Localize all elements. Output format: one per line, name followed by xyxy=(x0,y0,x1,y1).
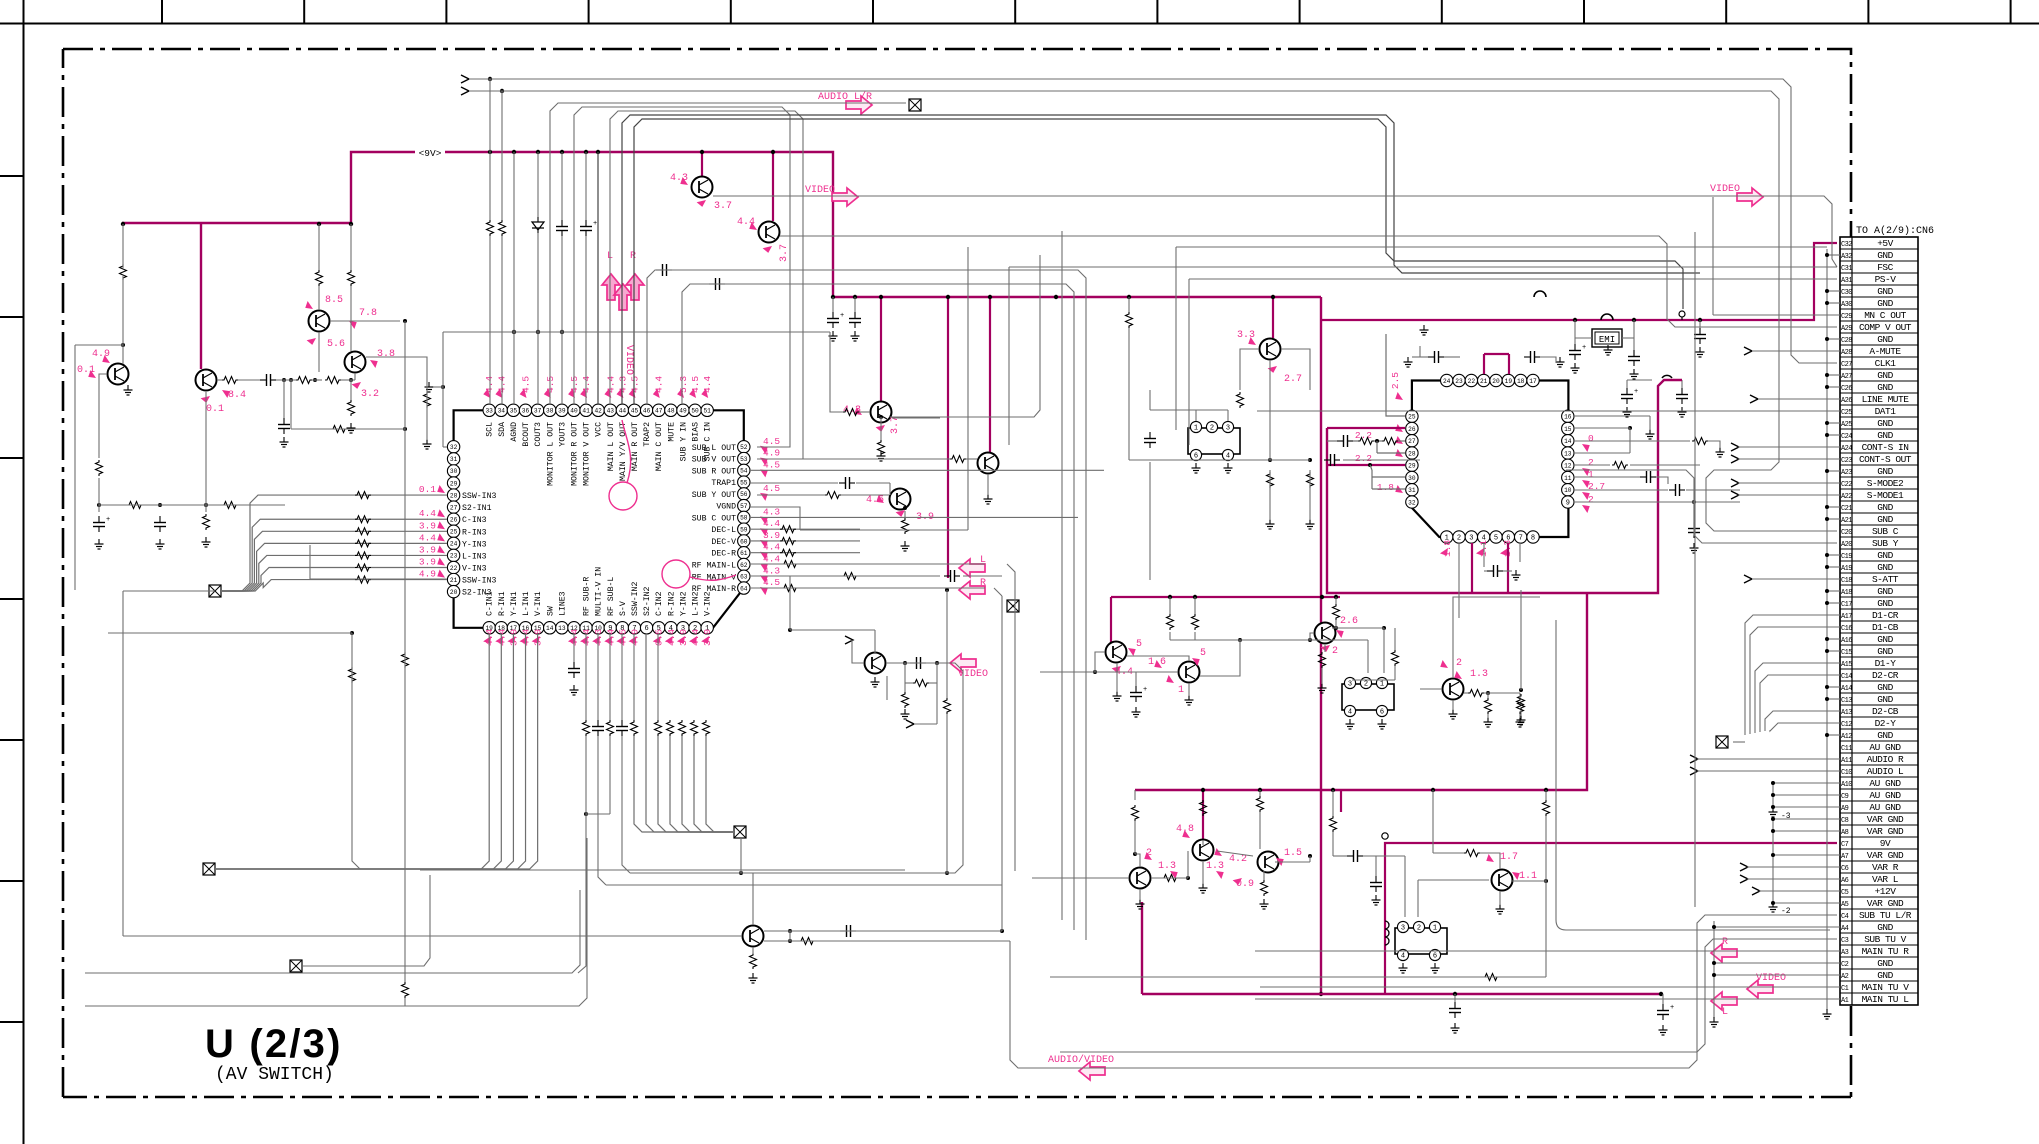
wire xyxy=(585,236,587,404)
svg-text:A17: A17 xyxy=(1841,613,1852,621)
svg-text:4.4: 4.4 xyxy=(763,554,780,565)
wire xyxy=(606,884,1002,886)
svg-text:GND: GND xyxy=(1877,970,1893,981)
wire xyxy=(501,91,503,220)
svg-text:0.1: 0.1 xyxy=(206,404,224,415)
svg-text:1.8: 1.8 xyxy=(1377,482,1394,493)
svg-text:14: 14 xyxy=(1564,438,1572,445)
wire magenta drop x1484-21 xyxy=(1483,354,1485,374)
svg-text:A5: A5 xyxy=(1841,901,1849,909)
wire GND bus at CN6 xyxy=(1826,249,1828,1010)
svg-text:31: 31 xyxy=(450,456,458,463)
capacitor C-emi2 xyxy=(1628,356,1640,358)
svg-text:A16: A16 xyxy=(1841,637,1852,645)
svg-text:Y-IN2: Y-IN2 xyxy=(679,591,688,616)
wire xyxy=(1151,877,1188,879)
svg-text:A-MUTE: A-MUTE xyxy=(1869,346,1901,357)
svg-text:2: 2 xyxy=(1588,457,1594,468)
transistor Q15 xyxy=(1315,623,1336,644)
wire xyxy=(1321,668,1323,684)
svg-text:4.5: 4.5 xyxy=(763,436,780,447)
ground Q11 xyxy=(874,677,876,682)
wire xyxy=(1484,692,1520,694)
capacitor C-p49 xyxy=(715,278,717,290)
ground AU GND -3 xyxy=(1772,807,1774,812)
svg-text:3.7: 3.7 xyxy=(714,201,732,212)
wire xyxy=(1335,597,1337,604)
svg-text:A18: A18 xyxy=(1841,589,1852,597)
resistor R-q1c xyxy=(120,264,127,280)
transistor Q16 xyxy=(1443,679,1464,700)
svg-text:TRAP2: TRAP2 xyxy=(643,422,652,447)
ground u2a xyxy=(1407,357,1409,362)
ground lm2 xyxy=(1499,904,1501,909)
svg-text:VCC: VCC xyxy=(595,422,604,437)
node junction pin32 gnd xyxy=(441,385,445,389)
wire xyxy=(1008,430,1010,445)
svg-text:V-IN2: V-IN2 xyxy=(704,591,713,616)
resistor R-x1521 xyxy=(1518,694,1525,710)
svg-text:13: 13 xyxy=(1564,450,1572,457)
svg-text:C16: C16 xyxy=(1841,625,1852,633)
svg-text:63: 63 xyxy=(740,574,748,581)
svg-text:8.5: 8.5 xyxy=(325,295,343,306)
svg-text:A28: A28 xyxy=(1841,349,1852,357)
svg-text:A21: A21 xyxy=(1841,517,1852,525)
wire xyxy=(841,494,889,496)
connector CN-C xyxy=(1395,928,1447,954)
svg-text:6: 6 xyxy=(1380,708,1384,716)
svg-text:LINE3: LINE3 xyxy=(558,591,567,616)
svg-text:AU GND: AU GND xyxy=(1869,790,1901,801)
wire xyxy=(312,379,322,381)
capacitor C-u2r xyxy=(1646,471,1648,483)
wire 9V drop Q5 xyxy=(772,152,774,221)
svg-text:19: 19 xyxy=(1505,378,1513,385)
wire xyxy=(634,119,1683,404)
wire xyxy=(108,632,352,634)
svg-text:3.9: 3.9 xyxy=(419,544,436,555)
svg-text:54: 54 xyxy=(740,468,748,475)
wire xyxy=(764,940,1010,942)
wire xyxy=(890,255,1040,417)
svg-text:3: 3 xyxy=(1401,924,1405,932)
svg-text:VGND: VGND xyxy=(716,503,736,512)
svg-text:2.6: 2.6 xyxy=(1340,616,1358,627)
svg-text:2: 2 xyxy=(1417,924,1421,932)
wire magenta top U2 xyxy=(1484,353,1509,355)
svg-text:A20: A20 xyxy=(1841,541,1852,549)
wire xyxy=(780,236,1837,327)
wire xyxy=(1135,672,1137,686)
wire xyxy=(1574,476,1640,478)
wire xyxy=(513,152,515,404)
wire 9V rail right xyxy=(445,152,1321,297)
capacitor C-Q11 xyxy=(916,657,918,669)
wire xyxy=(354,373,356,380)
svg-text:+: + xyxy=(593,220,597,228)
wire xyxy=(350,380,352,400)
resistor R-y505a xyxy=(127,502,143,509)
wire xyxy=(1752,578,1840,580)
svg-text:S-MODE1: S-MODE1 xyxy=(1867,490,1904,501)
svg-text:C23: C23 xyxy=(1841,457,1852,465)
node input chevron var xyxy=(1740,863,1748,871)
svg-text:GND: GND xyxy=(1877,682,1893,693)
wire pin25 up xyxy=(1386,334,1405,416)
wire xyxy=(1574,427,1630,429)
resistor R-x405b xyxy=(402,982,409,998)
svg-text:57: 57 xyxy=(740,503,748,510)
node external terminal X6 xyxy=(1716,736,1728,748)
node input chevron row xyxy=(1731,455,1739,463)
svg-text:1: 1 xyxy=(1588,469,1594,480)
wire xyxy=(1227,410,1229,421)
wire xyxy=(1187,851,1189,878)
svg-text:COUT3: COUT3 xyxy=(534,422,543,447)
svg-text:2.2: 2.2 xyxy=(1355,453,1372,464)
wire xyxy=(1545,790,1547,800)
node junction dots 9v y297 xyxy=(853,295,857,299)
wire xyxy=(832,297,834,312)
wire xyxy=(630,663,963,873)
svg-text:A4: A4 xyxy=(1841,925,1849,933)
wire xyxy=(1001,596,1003,931)
node wire y973 xyxy=(85,890,580,973)
ground emi4 xyxy=(1699,347,1701,352)
wire xyxy=(1545,881,1547,977)
svg-text:GND: GND xyxy=(1877,958,1893,969)
svg-text:4.4: 4.4 xyxy=(419,508,436,519)
svg-text:C9: C9 xyxy=(1841,793,1849,801)
wire u2l-g xyxy=(1371,470,1373,489)
wire xyxy=(1383,628,1385,673)
wire xyxy=(1188,683,1190,696)
svg-text:22: 22 xyxy=(450,565,458,572)
wire xyxy=(750,575,940,577)
svg-text:5: 5 xyxy=(1136,639,1142,650)
svg-text:4.4: 4.4 xyxy=(690,629,701,646)
transistor Q17 xyxy=(1193,840,1214,861)
node junction x947 xyxy=(945,871,949,875)
wire 9V drop Q10 xyxy=(1272,297,1274,338)
wire U1 right outputs xyxy=(750,469,1104,471)
svg-text:1.3: 1.3 xyxy=(1206,861,1224,872)
svg-text:4.4: 4.4 xyxy=(605,376,616,393)
svg-text:C10: C10 xyxy=(1841,769,1852,777)
resistor R-q2e xyxy=(203,514,210,530)
svg-text:50: 50 xyxy=(691,408,699,415)
resistor R-q2c xyxy=(222,377,238,384)
svg-text:A10: A10 xyxy=(1841,781,1852,789)
wire xyxy=(994,588,1002,596)
svg-text:4.9: 4.9 xyxy=(630,629,641,646)
wire xyxy=(1050,976,1546,978)
svg-text:D1-CR: D1-CR xyxy=(1872,610,1899,621)
resistor R-Q12 xyxy=(799,938,815,945)
wire x1682 stub xyxy=(1681,380,1683,388)
wire xyxy=(1275,861,1310,863)
node diode D1 xyxy=(532,222,544,230)
svg-text:4.5: 4.5 xyxy=(521,376,532,393)
svg-text:GND: GND xyxy=(1877,550,1893,561)
transistor Q13 xyxy=(1106,642,1127,663)
transistor Q12 xyxy=(743,926,764,947)
node junction u2r9 xyxy=(1692,500,1696,504)
wire xyxy=(443,446,447,448)
svg-text:45: 45 xyxy=(631,408,639,415)
node signal arrow VIDEO up xyxy=(614,284,632,310)
svg-text:C11: C11 xyxy=(1841,745,1852,753)
wire xyxy=(789,931,791,941)
svg-text:MAIN TU R: MAIN TU R xyxy=(1862,946,1910,957)
wire xyxy=(1169,597,1171,614)
wire xyxy=(1202,862,1204,884)
resistor R-lm3 xyxy=(1257,796,1264,812)
resistor R-c1 xyxy=(1167,614,1174,630)
wire xyxy=(352,633,510,869)
svg-text:A11: A11 xyxy=(1841,757,1852,765)
node input chevron A xyxy=(461,75,469,83)
wire xyxy=(880,417,882,423)
wire xyxy=(574,107,790,447)
svg-text:MAIN TU L: MAIN TU L xyxy=(1862,994,1910,1005)
svg-text:C27: C27 xyxy=(1841,361,1852,369)
svg-text:61: 61 xyxy=(740,550,748,557)
svg-text:1.8: 1.8 xyxy=(1442,540,1453,557)
svg-text:C2: C2 xyxy=(1841,961,1849,969)
wire xyxy=(633,634,635,720)
wire xyxy=(1487,693,1489,698)
wire xyxy=(442,332,444,447)
svg-text:9: 9 xyxy=(1566,499,1570,507)
wire magenta pin29 U2 xyxy=(1327,464,1405,466)
node junction u2r xyxy=(1628,426,1632,430)
svg-text:U (2/3): U (2/3) xyxy=(205,1022,343,1066)
svg-text:2: 2 xyxy=(1364,680,1368,688)
resistor R-lm2 xyxy=(1162,875,1178,882)
ground emi2 xyxy=(1633,369,1635,374)
resistor R-q3c xyxy=(316,270,323,286)
node input chevron audio xyxy=(1690,767,1698,775)
svg-text:R-IN2: R-IN2 xyxy=(667,591,676,616)
node 9V net label xyxy=(416,146,444,158)
wire xyxy=(1738,494,1840,496)
wire xyxy=(122,276,124,364)
wire xyxy=(1175,247,1177,430)
ground GND bus lower xyxy=(1713,1017,1715,1022)
svg-text:38: 38 xyxy=(546,408,554,415)
wire xyxy=(1128,297,1130,312)
svg-text:VIDEO: VIDEO xyxy=(805,185,835,196)
svg-text:AGND: AGND xyxy=(510,422,519,442)
wire xyxy=(880,423,882,440)
wire xyxy=(310,545,447,579)
svg-text:GND: GND xyxy=(1877,514,1893,525)
wire xyxy=(622,115,1700,404)
wire xyxy=(1418,879,1489,881)
wire 9V drop x948 xyxy=(947,297,949,578)
svg-text:16: 16 xyxy=(1564,414,1572,421)
wire 9V drop x881 xyxy=(880,297,882,401)
svg-text:A15: A15 xyxy=(1841,661,1852,669)
svg-text:41: 41 xyxy=(582,408,590,415)
svg-text:SUB R OUT: SUB R OUT xyxy=(692,467,736,476)
node input chevron audio xyxy=(1690,755,1698,763)
svg-text:SSW-IN2: SSW-IN2 xyxy=(631,582,640,616)
svg-text:37: 37 xyxy=(534,408,542,415)
wire AU GND bus xyxy=(1772,783,1774,807)
wire xyxy=(886,676,888,700)
wire xyxy=(1712,197,1714,315)
wire magenta drop x1341 xyxy=(1340,790,1342,812)
resistor R-chain1 xyxy=(296,377,312,384)
wire X7 line xyxy=(303,875,430,966)
svg-text:11: 11 xyxy=(1564,475,1572,482)
wire xyxy=(74,345,76,590)
wire xyxy=(800,529,968,531)
svg-text:5.3: 5.3 xyxy=(678,376,689,393)
resistor R-q15e xyxy=(1319,652,1326,668)
svg-text:GND: GND xyxy=(1877,334,1893,345)
svg-text:A31: A31 xyxy=(1841,277,1852,285)
ground lm-q17 xyxy=(1202,883,1204,888)
svg-text:C28: C28 xyxy=(1841,337,1852,345)
wire xyxy=(1699,320,1701,328)
svg-text:C30: C30 xyxy=(1841,289,1852,297)
wire xyxy=(561,152,563,220)
resistor R-63 xyxy=(842,573,858,580)
svg-text:A26: A26 xyxy=(1841,397,1852,405)
svg-text:4.3: 4.3 xyxy=(593,629,604,646)
svg-text:6: 6 xyxy=(1194,452,1198,460)
svg-text:SUB Y IN: SUB Y IN xyxy=(679,422,688,461)
node U2 pin voltage annotations xyxy=(1394,392,1405,403)
wire xyxy=(1310,633,1314,640)
wire xyxy=(1499,891,1501,905)
op-amp U2 switch IC 32-pin xyxy=(1412,381,1569,538)
svg-text:SUB L OUT: SUB L OUT xyxy=(692,444,736,453)
node junction dots y320 xyxy=(1573,318,1577,322)
svg-text:VAR L: VAR L xyxy=(1872,874,1899,885)
capacitor C-u2r2 xyxy=(1675,484,1677,496)
wire xyxy=(350,286,352,351)
node junction x1321b xyxy=(1319,992,1323,996)
wire xyxy=(657,634,659,720)
wire xyxy=(585,152,587,220)
wire xyxy=(1738,482,1840,484)
node junction chain xyxy=(282,378,286,382)
svg-text:48: 48 xyxy=(667,408,675,415)
wire xyxy=(1574,489,1668,491)
ground q8 xyxy=(904,541,906,546)
wire D1/D2 bundle xyxy=(1745,615,1840,735)
wire xyxy=(1622,337,1634,339)
node junction q8e xyxy=(903,506,907,510)
svg-text:56: 56 xyxy=(740,491,748,498)
wire xyxy=(330,320,400,322)
wire u2l-a xyxy=(1327,440,1337,442)
svg-text:+: + xyxy=(1670,1004,1674,1012)
wire u2l-d xyxy=(1398,440,1405,442)
svg-text:VIDEO: VIDEO xyxy=(623,345,634,375)
wire x1627 stub xyxy=(1627,379,1652,381)
svg-text:C1: C1 xyxy=(1841,985,1849,993)
svg-text:3: 3 xyxy=(1348,680,1352,688)
connector CN-B xyxy=(1342,684,1394,710)
wire xyxy=(1343,459,1420,461)
node junction q12r xyxy=(1000,929,1004,933)
node callout circle RF MAIN-V xyxy=(662,560,690,588)
node junction q1c xyxy=(121,343,125,347)
capacitor C-u2r3 xyxy=(1688,528,1700,530)
wire xyxy=(1503,570,1512,572)
node external terminal X2 xyxy=(209,585,221,597)
wire xyxy=(1656,477,1668,484)
node junction dots 9v rail xyxy=(488,150,492,154)
svg-text:2.5: 2.5 xyxy=(1390,372,1401,389)
capacitor C-lm1 xyxy=(1370,882,1382,884)
resistor R-lm1b xyxy=(1200,800,1207,816)
svg-text:25: 25 xyxy=(450,529,458,536)
wire xyxy=(1519,693,1521,698)
svg-text:SUB TU L/R: SUB TU L/R xyxy=(1859,910,1912,921)
wire xyxy=(1394,628,1396,650)
wire xyxy=(122,591,124,936)
resistor R-q7b xyxy=(878,440,885,456)
wire xyxy=(1708,441,1720,448)
wire xyxy=(889,483,891,495)
wire u2l-h xyxy=(1372,476,1405,478)
wire xyxy=(1484,570,1487,572)
svg-text:S2-IN2: S2-IN2 xyxy=(643,586,652,616)
resistor R-lm5 xyxy=(1464,850,1480,857)
wire xyxy=(1464,692,1468,694)
svg-text:FSC: FSC xyxy=(1877,262,1893,273)
svg-text:GND: GND xyxy=(1877,634,1893,645)
wire xyxy=(1747,866,1840,868)
svg-text:29: 29 xyxy=(450,480,458,487)
wire xyxy=(1240,349,1259,390)
wire xyxy=(1686,489,1740,491)
wire xyxy=(1169,632,1171,640)
svg-text:C22: C22 xyxy=(1841,481,1852,489)
node input chevron amute xyxy=(1744,347,1752,355)
svg-text:0: 0 xyxy=(1588,433,1594,444)
svg-text:GND: GND xyxy=(1877,382,1893,393)
node tick marks left ruler xyxy=(0,175,24,177)
svg-text:32: 32 xyxy=(1408,499,1416,506)
wire xyxy=(752,873,754,925)
wire xyxy=(215,868,352,870)
svg-text:S2-IN1: S2-IN1 xyxy=(462,504,492,513)
svg-text:A2: A2 xyxy=(1841,973,1849,981)
svg-text:3.7: 3.7 xyxy=(779,244,790,262)
svg-text:A30: A30 xyxy=(1841,301,1852,309)
svg-text:53: 53 xyxy=(740,456,748,463)
wire xyxy=(99,504,285,506)
svg-text:1.1: 1.1 xyxy=(1519,871,1537,882)
wire xyxy=(914,723,937,725)
svg-text:AUDIO R: AUDIO R xyxy=(1867,754,1904,765)
wire xyxy=(1195,410,1197,421)
node junction q7e xyxy=(879,415,883,419)
svg-text:GND: GND xyxy=(1877,298,1893,309)
svg-text:GND: GND xyxy=(1877,418,1893,429)
svg-text:3.9: 3.9 xyxy=(702,629,713,646)
node annotation pointers xyxy=(101,355,112,366)
svg-text:4.9: 4.9 xyxy=(763,448,780,459)
